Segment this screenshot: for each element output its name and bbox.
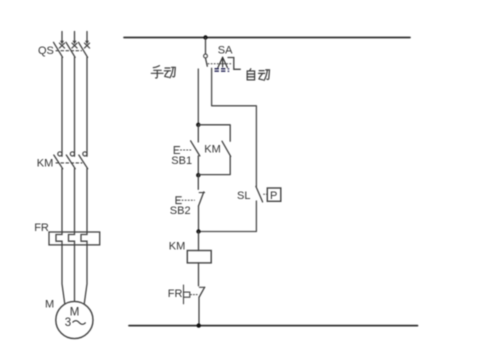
KM main contact arc pole2 [70,152,74,156]
FR heater element pole3 [81,232,87,245]
SB2 lower terminal [198,206,200,232]
wire L1 QS-KM [61,57,63,156]
KM linkage dashed [56,162,82,164]
svg-text:KM: KM [204,143,221,155]
KM main contact arc pole1 [58,152,62,156]
QS blade pole1 [54,42,63,57]
svg-text:KM: KM [37,158,54,170]
QS contact X pole2 [72,43,77,48]
QS linkage dashed [56,50,82,52]
label 手动 (hand-drawn glyphs) [151,66,175,78]
SL pressure box P [267,188,281,201]
wire L3 FR-motor [84,245,87,303]
KM aux contact branch [198,125,230,141]
bottom bus N [129,325,418,327]
SB1 lower terminal [197,156,199,175]
node A [196,123,200,127]
motor M circle [56,301,93,338]
SB1 actuator dotted link [181,149,193,151]
wire L1 FR-motor [62,245,65,303]
svg-text:SB1: SB1 [171,155,192,167]
label 自动 (hand-drawn glyphs) [247,69,269,81]
svg-text:SA: SA [218,45,233,57]
QS contact X pole3 [84,43,89,48]
motor tilde [73,321,86,325]
supply arrow L2 [73,32,77,45]
wire manual branch [197,69,199,125]
SB2 NC bar [199,192,204,194]
wire L2 QS-KM [74,57,76,156]
自 [247,69,254,80]
wire auto branch [212,68,257,186]
wire coil to FR contact [198,263,200,286]
SB1 actuator E [174,147,179,154]
SA right contact bracket [228,58,240,70]
wire L3 KM-FR [86,169,88,232]
svg-text:KM: KM [169,241,186,253]
svg-text:M: M [70,307,80,319]
supply arrow L1 [60,32,64,45]
KM blade pole3 [79,155,88,169]
svg-text:FR: FR [34,222,49,234]
wire L3 QS-KM [86,57,88,156]
wire L1 KM-FR [61,169,63,232]
wire node C to coil [198,232,200,251]
KM aux lower wire [198,156,230,174]
wire L2 FR-motor [74,245,76,302]
top bus L [124,37,410,39]
KM coil [187,251,211,263]
SA linkage dotted [208,63,233,65]
SB1 blade [191,141,200,156]
svg-text:3: 3 [65,317,71,329]
SB1 upper terminal [197,125,199,142]
SA position marks (navy) [215,68,230,72]
SA pivot circle [204,54,208,58]
node: top junction [203,35,207,39]
QS blade pole2 [66,42,75,57]
wire L2 KM-FR [74,169,76,232]
node C [196,229,200,233]
KM blade pole1 [54,155,63,169]
FR thermal relay box [49,232,100,245]
node B [196,173,200,177]
KM blade pole2 [66,155,75,169]
supply arrow L3 [85,32,89,45]
SA handle V [218,57,228,67]
SL upper terminal end + blade [256,186,263,202]
KM main contact arc pole3 [83,152,87,156]
svg-text:FR: FR [168,288,183,300]
动 [259,70,270,81]
svg-text:SB2: SB2 [170,205,191,217]
svg-text:QS: QS [38,45,54,57]
手 [151,66,163,78]
FR lower wire [198,297,200,326]
svg-text:M: M [45,299,54,311]
SL dotted link [264,193,267,195]
QS blade pole3 [79,42,88,57]
svg-text:SL: SL [237,190,250,202]
SA left blade [206,58,208,66]
SB2 actuator dotted link [182,199,195,201]
FR heater element pole1 [56,232,62,245]
SB2 actuator E [176,197,181,204]
KM aux blade [222,141,231,156]
SB2 blade [199,192,204,206]
QS contact X pole1 [59,43,64,48]
FR NC bar [199,286,205,288]
FR heater element pole2 [69,232,75,245]
动 [164,67,175,78]
SB2 upper terminal [197,175,199,189]
FR actuator [184,285,190,304]
svg-text:P: P [270,190,277,202]
wire bus to SA [205,38,207,54]
SL lower wire to node C [199,201,257,232]
FR blade [199,287,204,297]
node D bottom junction [197,323,201,327]
FR actuator dotted link [191,294,198,296]
